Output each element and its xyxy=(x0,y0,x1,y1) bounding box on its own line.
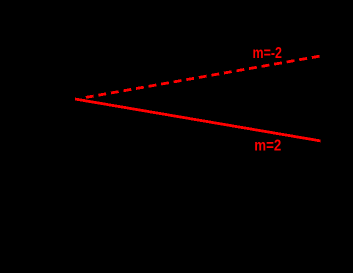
svg-text:m=2: m=2 xyxy=(254,138,281,155)
solid line, slope m=2 xyxy=(75,99,321,141)
dashed line, slope m=-2 xyxy=(86,56,321,97)
svg-text:m=-2: m=-2 xyxy=(253,45,282,62)
